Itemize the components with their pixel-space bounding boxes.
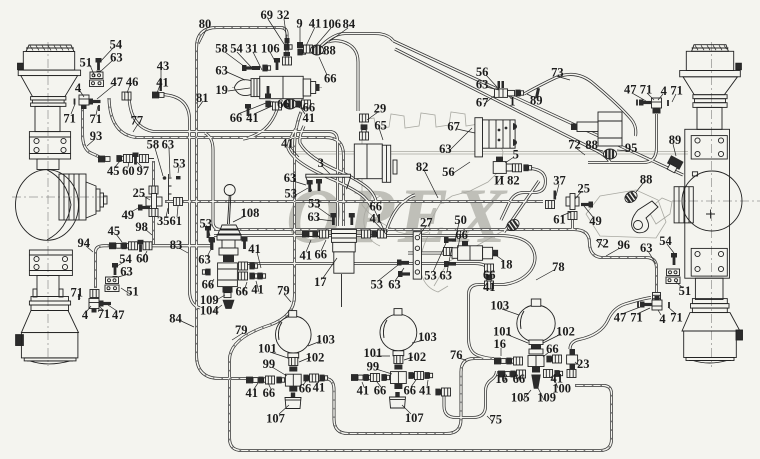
plates 51 left2: [105, 277, 119, 292]
svg-text:79: 79: [235, 323, 248, 337]
svg-text:105: 105: [511, 390, 530, 404]
svg-text:99: 99: [367, 360, 380, 374]
svg-text:4: 4: [661, 84, 668, 98]
svg-text:66: 66: [324, 71, 337, 85]
svg-text:75: 75: [490, 413, 503, 427]
svg-text:107: 107: [405, 411, 424, 425]
svg-text:82: 82: [416, 160, 429, 174]
svg-text:43: 43: [157, 59, 170, 73]
left fittings 16/66 c: [494, 358, 506, 365]
svg-text:72: 72: [596, 237, 609, 251]
svg-text:41: 41: [246, 386, 259, 400]
svg-text:51: 51: [126, 285, 139, 299]
clamp 9b: [513, 139, 517, 146]
svg-text:41: 41: [156, 76, 169, 90]
valve 17 left fittings 41/66: [302, 231, 314, 238]
hose 94: [96, 246, 119, 288]
svg-text:53: 53: [371, 278, 384, 292]
wire 78: [214, 236, 535, 359]
wire 96 diagonal: [395, 49, 610, 163]
svg-text:81: 81: [196, 91, 209, 105]
svg-text:47: 47: [614, 311, 627, 325]
bolt 106 tick: [274, 58, 280, 70]
svg-text:32: 32: [277, 8, 290, 22]
wire 95 riser: [588, 114, 657, 163]
wire 66 lower run: [244, 264, 489, 273]
bolt 43 pin: [160, 79, 162, 91]
screw 49a: [138, 205, 150, 211]
wire 46 branch: [129, 96, 338, 226]
hose 41 a: [288, 127, 371, 207]
valve 17 right fittings 66: [362, 230, 371, 238]
svg-text:35: 35: [157, 214, 170, 228]
valve 19 right caps: [303, 79, 311, 96]
svg-text:41: 41: [483, 280, 496, 294]
svg-text:73: 73: [551, 65, 564, 79]
svg-text:41: 41: [302, 111, 315, 125]
washer 63 left2: [113, 276, 118, 278]
acc a neck fittings: [288, 353, 299, 358]
svg-text:103: 103: [418, 330, 437, 344]
svg-text:54: 54: [230, 41, 243, 55]
right top taper: [683, 77, 738, 95]
svg-text:99: 99: [263, 357, 276, 371]
valve 1 block: [495, 89, 508, 98]
cross 25b: [566, 197, 579, 206]
wire 23 riser: [570, 298, 651, 350]
right bottom flange: [692, 299, 727, 304]
svg-text:17: 17: [314, 275, 327, 289]
svg-text:102: 102: [306, 350, 325, 364]
bolt 47 right-top: [639, 100, 651, 106]
washer 63 top-left: [97, 71, 102, 73]
svg-text:94: 94: [77, 236, 90, 250]
end fitting 63r of pipe 96: [653, 293, 661, 302]
lever bellows: [217, 225, 241, 240]
svg-text:71: 71: [630, 311, 643, 325]
svg-text:77: 77: [131, 114, 144, 128]
right housing outline: [685, 129, 730, 278]
elbow 4 right-top: [652, 98, 662, 112]
valve 18 body: [458, 246, 483, 260]
pipe 35 rod: [169, 174, 172, 214]
gear 88c below: [604, 149, 617, 159]
accumulator 103b sphere: [380, 314, 417, 351]
svg-text:63: 63: [388, 278, 401, 292]
svg-text:71: 71: [71, 286, 84, 300]
gear 88d on diagonal: [623, 189, 639, 205]
fitting 89 diag: [665, 155, 684, 174]
svg-text:66: 66: [299, 381, 312, 395]
wire 76 loop: [325, 359, 494, 434]
screw 49b: [581, 202, 593, 208]
right tube lower: [695, 278, 723, 299]
svg-text:53: 53: [308, 196, 321, 210]
svg-text:9: 9: [296, 16, 302, 30]
tick 71 left-bottom: [78, 294, 80, 300]
stack 69/32: [284, 44, 292, 51]
wire manifold drop: [205, 133, 221, 230]
left fitting 66: [202, 269, 210, 276]
left brake drum pack: [59, 174, 86, 220]
fitting 82r: [513, 164, 522, 172]
right fittings 66/41 a: [303, 375, 311, 382]
svg-text:66: 66: [277, 97, 290, 111]
svg-text:97: 97: [137, 164, 150, 178]
left top wheel drum body: [23, 52, 74, 71]
svg-text:41: 41: [313, 381, 326, 395]
svg-text:19: 19: [215, 83, 228, 97]
svg-text:61: 61: [553, 213, 566, 227]
svg-text:63: 63: [284, 171, 297, 185]
right top hub nub: [736, 63, 742, 69]
svg-text:72: 72: [568, 138, 581, 152]
second row left 16/66: [498, 371, 510, 378]
below tee b: [394, 384, 402, 390]
plates 51 top-left: [90, 72, 104, 87]
svg-text:66: 66: [546, 342, 559, 356]
svg-text:106: 106: [322, 17, 341, 31]
svg-text:И: И: [494, 173, 504, 187]
svg-text:37: 37: [553, 174, 566, 188]
bracket 3: [306, 174, 351, 177]
hose hatch tick overlay: [83, 28, 657, 451]
right bottom base: [686, 358, 734, 361]
fitting right of valve1: [508, 90, 515, 96]
hose94 fittings bottom: [90, 290, 99, 298]
left bottom drum: [21, 333, 78, 358]
fitting on 98 upper: [149, 186, 158, 194]
svg-text:71: 71: [670, 84, 683, 98]
wire 29 drop: [328, 41, 358, 111]
svg-text:63: 63: [307, 210, 320, 224]
valve 19 bottom fittings 66/41: [265, 101, 273, 108]
svg-text:93: 93: [90, 129, 103, 143]
svg-text:56: 56: [442, 165, 455, 179]
valve 65 body: [354, 144, 382, 179]
hose 41 c: [386, 195, 415, 232]
svg-text:5: 5: [513, 148, 519, 162]
fittings 45 60 row2: [109, 242, 121, 249]
wire 79 loop: [230, 112, 612, 451]
left bottom flange: [31, 297, 69, 302]
right bottom drum: [684, 331, 737, 358]
ticks 71 right-bottom: [637, 302, 639, 308]
below 18 fittings 66/41: [485, 264, 494, 272]
svg-text:49: 49: [589, 214, 602, 228]
svg-text:63: 63: [439, 142, 452, 156]
elbow 4 left-bottom: [89, 299, 99, 313]
svg-text:66: 66: [374, 384, 387, 398]
svg-text:4: 4: [659, 312, 666, 326]
svg-text:53: 53: [285, 186, 298, 200]
svg-text:60: 60: [122, 164, 135, 178]
svg-text:41: 41: [309, 16, 322, 30]
bolts near 50: [444, 237, 456, 243]
svg-text:51: 51: [679, 284, 692, 298]
left bottom taper: [21, 311, 78, 333]
svg-text:84: 84: [343, 17, 356, 31]
svg-text:88: 88: [640, 172, 653, 186]
svg-text:65: 65: [374, 119, 387, 133]
bottom stack 109: [223, 287, 233, 293]
svg-text:66: 66: [236, 284, 249, 298]
bell 107a: [285, 393, 301, 409]
svg-text:50: 50: [454, 213, 467, 227]
left tube lower: [37, 276, 59, 297]
svg-text:67: 67: [476, 95, 489, 109]
svg-text:84: 84: [169, 312, 182, 326]
hose fitting 93 bottom: [98, 156, 110, 163]
svg-text:1: 1: [509, 95, 515, 109]
acc b neck: [393, 351, 404, 356]
bracket plate 27: [413, 232, 421, 279]
fitting stack 29: [360, 114, 369, 122]
svg-text:66: 66: [403, 384, 416, 398]
svg-text:60: 60: [136, 251, 149, 265]
bolt 47 left-top: [89, 99, 101, 105]
svg-text:3: 3: [318, 156, 324, 170]
bolt 47 left-bottom: [99, 301, 111, 307]
right top wheel flange: [680, 71, 741, 77]
left diff bowl: [16, 170, 79, 241]
clamp 9a: [513, 123, 517, 130]
elbow 4 right-bottom: [652, 296, 662, 310]
left bottom nub: [16, 335, 24, 346]
svg-text:63: 63: [476, 77, 489, 91]
svg-text:98: 98: [135, 220, 148, 234]
tee 99a: [285, 374, 301, 386]
right fittings 66/41: [239, 262, 248, 270]
svg-text:71: 71: [97, 307, 110, 321]
wire 94 row: [148, 244, 212, 247]
washers 54/31: [252, 66, 260, 70]
svg-text:78: 78: [552, 260, 565, 274]
bolt 47 right-bottom: [640, 302, 652, 308]
valve 5 block: [493, 162, 506, 174]
svg-text:66: 66: [455, 228, 468, 242]
left spring block 2: [29, 250, 72, 276]
fittings 45 60 97 row: [116, 155, 124, 162]
centerlines: [12, 42, 760, 367]
svg-text:63: 63: [215, 64, 228, 78]
right axle tube upper: [697, 107, 722, 129]
svg-text:18: 18: [500, 257, 513, 271]
fitting 46: [122, 92, 131, 100]
svg-text:63: 63: [198, 253, 211, 267]
cone 104: [223, 300, 235, 309]
bolts 63 beside: [209, 237, 215, 249]
wire 75 loop: [444, 371, 497, 418]
svg-text:53: 53: [424, 269, 437, 283]
pipe short connect 98-45: [147, 158, 154, 160]
svg-text:41: 41: [370, 211, 383, 225]
valve 19 body: [260, 76, 304, 98]
right diff bowl: [682, 171, 742, 231]
svg-text:104: 104: [200, 304, 220, 318]
svg-text:101: 101: [258, 342, 277, 356]
svg-text:66: 66: [315, 247, 328, 261]
bolts 53/63 pair b: [330, 213, 336, 225]
wire 81: [162, 95, 200, 309]
svg-text:47: 47: [624, 83, 637, 97]
svg-text:49: 49: [122, 208, 135, 222]
left top hub rings: [31, 97, 66, 100]
left bottom base: [24, 358, 76, 361]
svg-text:16: 16: [495, 372, 508, 386]
valve 95 stub: [577, 122, 598, 132]
svg-text:80: 80: [199, 17, 212, 31]
svg-text:71: 71: [90, 112, 103, 126]
svg-text:54: 54: [659, 234, 672, 248]
svg-text:101: 101: [364, 346, 383, 360]
svg-text:58: 58: [147, 138, 160, 152]
tick 53: [176, 176, 181, 179]
port stub: [393, 160, 397, 174]
hose 93: [83, 101, 102, 158]
svg-text:27: 27: [420, 215, 433, 229]
svg-text:16: 16: [493, 337, 506, 351]
tee 99c cross: [528, 356, 544, 367]
svg-text:102: 102: [407, 350, 426, 364]
svg-text:63: 63: [640, 241, 653, 255]
bolts 53/63 right pair: [397, 260, 409, 266]
svg-text:54: 54: [110, 37, 123, 51]
fitting 100: [554, 370, 562, 377]
cross 23 stack: [567, 355, 578, 364]
valve body block: [218, 263, 238, 287]
svg-text:83: 83: [170, 238, 183, 252]
svg-text:45: 45: [108, 224, 121, 238]
svg-text:71: 71: [63, 111, 76, 125]
bolts 53/63 pair a: [307, 180, 313, 192]
left top wheel drum cap: [26, 45, 74, 52]
below tee a: [289, 386, 297, 392]
gear 88b: [505, 217, 521, 233]
bolt 63 below-left: [245, 104, 251, 116]
right top wheel drum body: [686, 51, 733, 70]
svg-text:66: 66: [202, 278, 215, 292]
ball 58: [163, 176, 167, 180]
svg-text:71: 71: [670, 311, 683, 325]
bolt 54r + plates 51r: [671, 253, 677, 265]
svg-text:61: 61: [170, 214, 183, 228]
chassis/engine light outline: [290, 112, 688, 292]
bolt 53 left: [205, 226, 211, 238]
svg-text:66: 66: [513, 372, 526, 386]
left top taper: [21, 76, 78, 97]
right top wheel drum cap: [692, 45, 729, 52]
svg-text:46: 46: [126, 75, 139, 89]
svg-text:47: 47: [112, 308, 125, 322]
svg-text:53: 53: [173, 157, 186, 171]
svg-text:79: 79: [277, 284, 290, 298]
svg-text:88: 88: [585, 138, 598, 152]
wire 82 middle run: [165, 200, 543, 203]
lever stem: [228, 196, 230, 225]
wire 72-96 manifold run: [214, 230, 657, 293]
svg-text:51: 51: [80, 56, 93, 70]
tick 71 b: [98, 105, 100, 111]
accumulator 103a sphere: [276, 316, 312, 353]
valve 17 body: [333, 242, 356, 252]
right fittings 66/41 b: [408, 372, 416, 379]
svg-text:41: 41: [251, 282, 264, 296]
tee 25a: [146, 197, 162, 206]
wire 72 long diagonal: [394, 41, 684, 175]
pipe 17 stem: [341, 274, 343, 307]
left tube mid: [37, 159, 59, 170]
svg-text:96: 96: [618, 238, 631, 252]
stack 9/41: [297, 49, 305, 56]
tick 71 rt: [636, 100, 638, 106]
elbow 4 left-top: [79, 95, 89, 109]
tee 99b: [391, 372, 407, 384]
svg-text:67: 67: [447, 120, 460, 134]
svg-text:25: 25: [577, 182, 590, 196]
hose 41 b: [300, 126, 376, 201]
right bottom taper: [682, 313, 740, 331]
svg-text:41: 41: [246, 111, 259, 125]
bolt 58 left of valve: [242, 65, 254, 71]
hose 41 d: [243, 110, 277, 139]
svg-text:76: 76: [450, 348, 463, 362]
wire 5 loop: [501, 169, 546, 221]
cone 109c: [532, 367, 540, 373]
compressor body: [483, 120, 516, 148]
svg-text:107: 107: [266, 411, 285, 425]
svg-text:4: 4: [82, 308, 89, 322]
svg-text:82: 82: [507, 173, 520, 187]
compressor mount plate: [475, 118, 483, 157]
svg-text:23: 23: [577, 357, 590, 371]
wire 84: [319, 34, 394, 49]
svg-text:102: 102: [556, 325, 575, 339]
valve 19 left rings: [251, 79, 260, 97]
bell 107b: [390, 392, 406, 408]
svg-text:41: 41: [281, 136, 294, 150]
right top hub rings: [693, 95, 727, 99]
bolt 54 left2: [112, 263, 118, 275]
svg-text:66: 66: [230, 111, 243, 125]
bolt 37 pin: [554, 191, 557, 200]
svg-text:25: 25: [133, 186, 146, 200]
fitting row on pmid right: [546, 201, 555, 209]
bolts 56/63 above valve 1: [498, 81, 501, 88]
wire 88 diagonal: [504, 181, 539, 232]
right bottom nub: [736, 330, 743, 340]
steering arm: [632, 201, 658, 233]
left fittings 41/66 b: [351, 374, 363, 381]
right brake drum pack: [674, 187, 693, 223]
svg-text:47: 47: [110, 75, 123, 89]
svg-text:29: 29: [374, 102, 387, 116]
fitting 61b below cross: [568, 212, 577, 220]
tick 89a: [535, 88, 540, 98]
pipe inner highlight overlay: [83, 28, 684, 451]
svg-text:63: 63: [162, 138, 175, 152]
valve 19 knob: [235, 80, 252, 96]
left top wheel flange: [18, 70, 80, 76]
fitting cluster 50: [444, 248, 453, 256]
svg-text:95: 95: [625, 141, 638, 155]
fitting 106: [304, 45, 313, 53]
valve 17 top flange: [332, 229, 357, 242]
valve 65 flange: [382, 145, 390, 182]
accumulator 103c sphere: [517, 305, 555, 342]
svg-text:89: 89: [669, 133, 682, 147]
valve stack below 108: [222, 240, 235, 248]
